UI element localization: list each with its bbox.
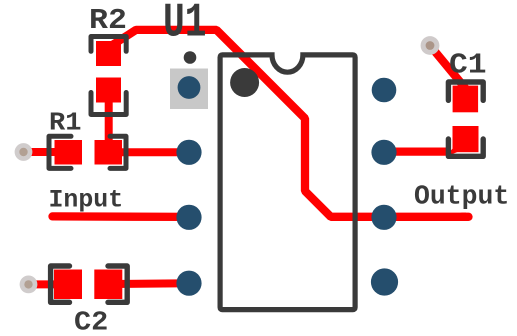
capacitor C1 pads — [453, 86, 479, 113]
resistor R2 pads — [96, 41, 121, 66]
svg-text:R2: R2 — [89, 5, 127, 38]
svg-text:Output: Output — [414, 182, 509, 212]
via near C1 — [421, 36, 440, 55]
resistor R2 silkscreen — [91, 37, 126, 115]
svg-text:Input: Input — [49, 186, 124, 214]
pad pin3 — [176, 205, 201, 230]
pad pin2 — [176, 140, 201, 165]
via near C2 — [20, 276, 38, 294]
U1 pin1 dot — [230, 68, 259, 97]
svg-text:R1: R1 — [49, 108, 81, 137]
svg-text:C2: C2 — [74, 308, 108, 336]
svg-text:U1: U1 — [163, 0, 206, 50]
capacitor C1 silkscreen — [448, 82, 483, 156]
op-amp U1 outline — [220, 55, 355, 310]
wire via to C2 left pad — [29, 280, 67, 288]
wire pin to C1 bottom pad — [384, 147, 450, 155]
silkscreen pin1 dot — [184, 51, 197, 64]
pin1 square pad (gray) — [170, 69, 208, 110]
capacitor C2 pads — [54, 270, 82, 300]
wire R2 bottom pad to R1 right pad to pin — [109, 88, 189, 152]
wire net1: R2 top pad to output via IC — [110, 30, 466, 217]
wire Input trace — [53, 212, 190, 221]
wire C2 right pad to pin — [108, 279, 189, 288]
resistor R1 pads — [55, 140, 83, 165]
via near R1 — [15, 143, 33, 161]
wire via to R1 left pad — [24, 148, 67, 156]
pad pin7 — [371, 140, 396, 165]
pad pin8 — [372, 78, 397, 103]
capacitor C2 silkscreen — [51, 266, 128, 302]
pad pin1 (blue circle in gray square) — [178, 76, 201, 99]
wire output cap end — [462, 213, 469, 221]
pad pin4 — [176, 271, 201, 296]
wire via to C1 top pad — [430, 46, 466, 90]
resistor R1 silkscreen — [49, 136, 126, 168]
pad pin5 — [371, 268, 398, 295]
svg-text:C1: C1 — [449, 49, 487, 81]
pad pin6 — [371, 205, 396, 230]
